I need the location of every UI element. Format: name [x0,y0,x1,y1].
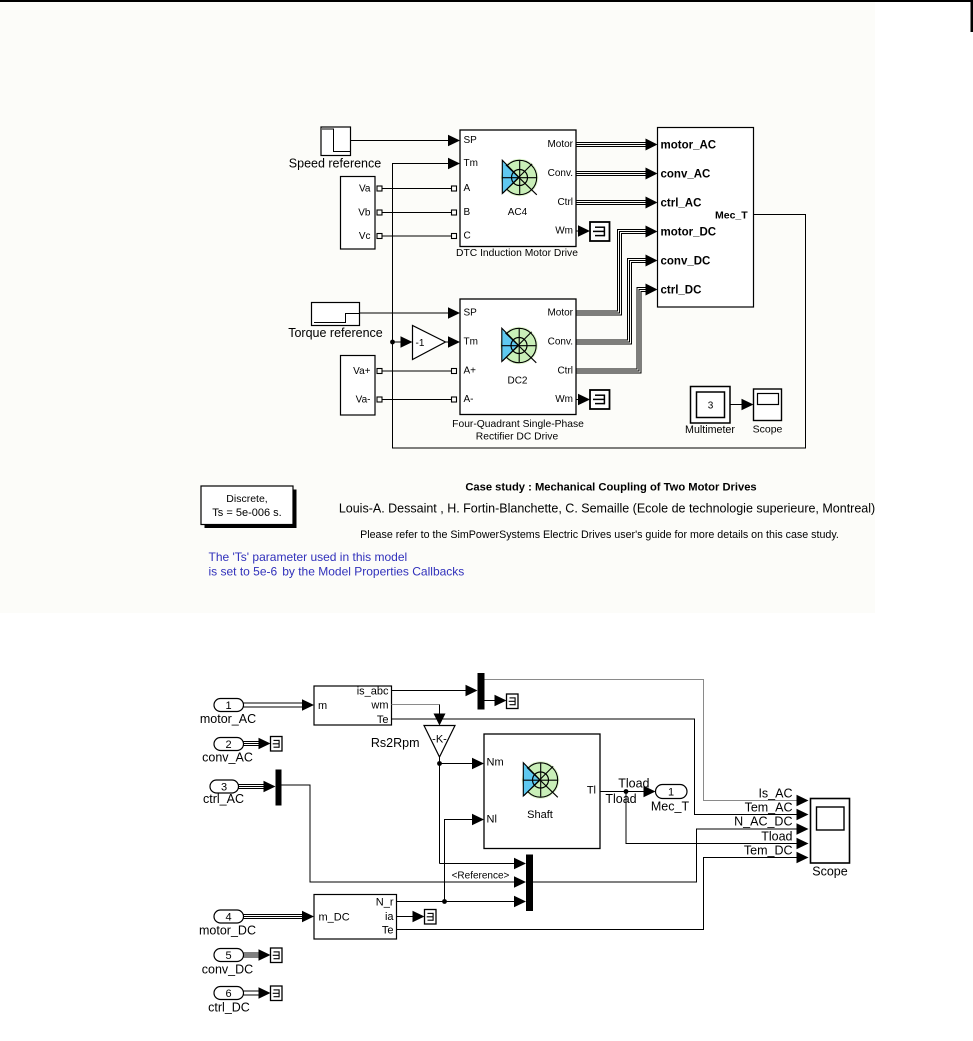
gain Rs2Rpm [371,726,455,758]
svg-text:Tm: Tm [464,337,478,348]
svg-text:Mec_T: Mec_T [715,210,748,222]
junction gain branch [390,336,412,348]
svg-text:Tload: Tload [605,792,636,806]
inport 2 [202,738,253,765]
svg-text:Tem_DC: Tem_DC [744,844,793,858]
svg-text:Va: Va [359,184,371,195]
terminator conv_DC [271,948,283,963]
bus AC4 Conv to conv_AC [576,168,658,180]
svg-text:Te: Te [377,714,389,726]
svg-text:is_abc: is_abc [357,686,389,698]
wire Va+ to A+ [377,369,457,374]
svg-text:SP: SP [464,308,478,319]
block Scope (top) [753,389,783,436]
svg-text:4: 4 [225,912,231,924]
svg-text:A: A [464,183,471,194]
gain -1 [413,326,446,360]
svg-text:1: 1 [668,787,674,799]
svg-text:Discrete,: Discrete, [226,493,267,505]
wire Vc to C [377,234,457,239]
wire Speed reference to SP [351,135,461,147]
svg-text:DC2: DC2 [507,375,527,386]
window border top [0,0,973,2]
wire Va- to A- [377,397,457,402]
svg-text:3: 3 [708,401,714,412]
wire Multimeter to Scope [730,399,754,411]
block AC4 [456,130,578,259]
outport Mec_T [651,785,690,814]
block Torque reference (step) [288,303,383,341]
svg-text:SP: SP [464,135,478,146]
svg-text:Case study : Mechanical Coupli: Case study : Mechanical Coupling of Two … [465,482,756,494]
svg-text:ctrl_DC: ctrl_DC [661,285,702,297]
svg-text:Mec_T: Mec_T [651,800,690,814]
svg-text:wm: wm [370,700,388,712]
svg-text:C: C [464,231,471,242]
svg-text:conv_AC: conv_AC [202,751,253,765]
svg-text:conv_AC: conv_AC [661,169,711,181]
block DC machine measurement [314,895,397,940]
inport 4 [199,910,256,938]
terminator Wm AC4 [590,222,610,241]
svg-text:A+: A+ [464,366,477,377]
terminator ctrl_DC [271,986,283,1001]
wire is_abc to bus selector [392,685,478,697]
svg-text:Scope: Scope [753,424,783,436]
svg-text:Ctrl: Ctrl [557,197,573,208]
svg-text:Torque reference: Torque reference [288,326,383,340]
terminator Wm DC2 [590,390,610,409]
svg-text:Vb: Vb [358,208,371,219]
svg-text:Ts = 5e-006 s.: Ts = 5e-006 s. [212,507,281,519]
svg-text:A-: A- [464,394,474,405]
svg-text:<Reference>: <Reference> [452,871,510,882]
svg-text:Tm: Tm [464,158,478,169]
svg-text:2: 2 [225,739,231,751]
wire bus selector to terminator [485,695,507,707]
wire Te (Tem_DC) to scope [397,852,809,930]
svg-text:conv_DC: conv_DC [661,256,711,268]
canvas tint [0,2,875,613]
svg-text:Nl: Nl [487,814,497,826]
svg-text:ia: ia [385,911,394,923]
block DC2 [452,299,584,443]
svg-text:m_DC: m_DC [319,912,350,924]
svg-text:Multimeter: Multimeter [685,424,735,436]
wire wm to gain [392,705,446,726]
svg-text:6: 6 [225,988,231,1000]
bus DC2 Ctrl to ctrl_DC [576,284,658,374]
bus AC4 Motor to motor_AC [576,139,658,151]
bus inport5 to terminator [244,949,271,961]
block Speed reference (step) [289,127,381,171]
svg-text:The 'Ts' parameter used in thi: The 'Ts' parameter used in this model [209,550,408,564]
bus selector bar ctrl_AC [276,770,282,806]
bus inport6 to terminator [244,987,271,999]
svg-text:Va+: Va+ [353,366,370,377]
svg-text:motor_DC: motor_DC [661,227,717,239]
svg-text:Four-Quadrant Single-Phase: Four-Quadrant Single-Phase [452,419,584,430]
window border right corner [971,0,973,32]
svg-text:ctrl_DC: ctrl_DC [208,1001,250,1015]
svg-text:Te: Te [382,925,394,937]
svg-text:AC4: AC4 [508,207,528,218]
svg-text:Conv.: Conv. [548,337,573,348]
wire Is_AC to scope [485,680,809,807]
svg-text:motor_AC: motor_AC [200,712,256,726]
bus inport1 to m [244,699,315,711]
block Vabc source [341,177,376,250]
wire gain out to Nm and mux [437,757,526,869]
mux (N_AC_DC) [526,855,533,912]
svg-text:ctrl_AC: ctrl_AC [203,792,244,806]
wire Nl from N_r junction [442,814,484,904]
svg-text:-K-: -K- [432,734,447,746]
svg-text:Conv.: Conv. [548,168,573,179]
svg-text:Tl: Tl [587,785,596,797]
wire reference from ctrl_AC selector to mux [282,785,527,888]
powergui Discrete block [201,486,297,528]
svg-text:Is_AC: Is_AC [758,787,792,801]
bus selector bar (is_abc) [478,673,485,710]
block Scope (bottom) [811,799,850,879]
block Shaft [484,734,600,849]
svg-text:Wm: Wm [555,394,573,405]
wire Torque reference to SP of DC2 [360,307,461,319]
svg-text:Motor: Motor [547,139,573,150]
svg-text:Wm: Wm [555,226,573,237]
svg-text:Scope: Scope [812,865,847,879]
block Multimeter [685,387,735,437]
terminator conv_AC [271,737,283,752]
svg-text:motor_DC: motor_DC [199,924,256,938]
svg-text:Va-: Va- [356,395,371,406]
terminator is_abc [507,694,519,709]
svg-text:DTC Induction Motor Drive: DTC Induction Motor Drive [456,248,578,259]
svg-text:Nm: Nm [487,757,504,769]
svg-text:ctrl_AC: ctrl_AC [661,198,702,210]
svg-text:motor_AC: motor_AC [661,140,717,152]
wire gain to Tm of DC2 [446,336,461,348]
svg-text:5: 5 [225,950,231,962]
wire mux out to scope [533,823,809,882]
wire Tl to Mec_T outport [600,786,809,850]
terminator ia [425,910,437,925]
subsystem box Mec_T [658,128,754,308]
svg-text:Tem_AC: Tem_AC [745,801,793,815]
svg-text:Tload: Tload [761,829,792,843]
bus DC2 Motor to motor_DC [576,226,658,316]
wire ia to terminator [397,911,425,923]
svg-text:-1: -1 [416,338,425,349]
bus inport4 to m_DC [244,911,315,923]
wire Te (Tem_AC) to scope [392,719,809,820]
svg-text:Rectifier DC Drive: Rectifier DC Drive [476,432,559,443]
wire AC4 Wm to terminator [576,225,590,237]
inport 5 [202,949,253,977]
block Va source (DC) [341,356,376,416]
bus DC2 Conv to conv_DC [576,255,658,345]
inport 6 [208,987,250,1015]
svg-text:m: m [318,700,327,712]
svg-text:Vc: Vc [359,231,371,242]
svg-text:Tload: Tload [618,777,649,791]
bus inport2 to terminator [244,738,271,750]
wire Mec_T feedback loop [393,158,806,448]
inport 3 [203,780,244,806]
bus AC4 Ctrl to ctrl_AC [576,197,658,209]
wire Vb to B [377,210,457,215]
svg-text:Ctrl: Ctrl [557,366,573,377]
wire DC2 Wm to terminator [576,394,590,406]
svg-text:Shaft: Shaft [527,809,553,821]
inport 1 [200,699,256,727]
svg-text:conv_DC: conv_DC [202,963,253,977]
wire N_r to mux [397,896,527,908]
svg-text:Rs2Rpm: Rs2Rpm [371,736,420,750]
svg-text:B: B [464,207,471,218]
svg-text:is set to 5e-6by the Model Pro: is set to 5e-6by the Model Properties Ca… [209,564,465,578]
svg-text:Motor: Motor [547,308,573,319]
svg-text:Speed reference: Speed reference [289,157,381,171]
svg-text:1: 1 [225,700,231,712]
wire Va to A [377,186,457,191]
svg-text:N_r: N_r [376,897,394,909]
svg-text:Louis-A. Dessaint , H. Fortin-: Louis-A. Dessaint , H. Fortin-Blanchette… [339,502,875,516]
svg-text:Please refer to the SimPowerSy: Please refer to the SimPowerSystems Elec… [360,529,839,541]
svg-text:N_AC_DC: N_AC_DC [734,815,792,829]
bus inport3 to bus selector [239,781,276,793]
block machines measurement (AC) [314,686,392,727]
